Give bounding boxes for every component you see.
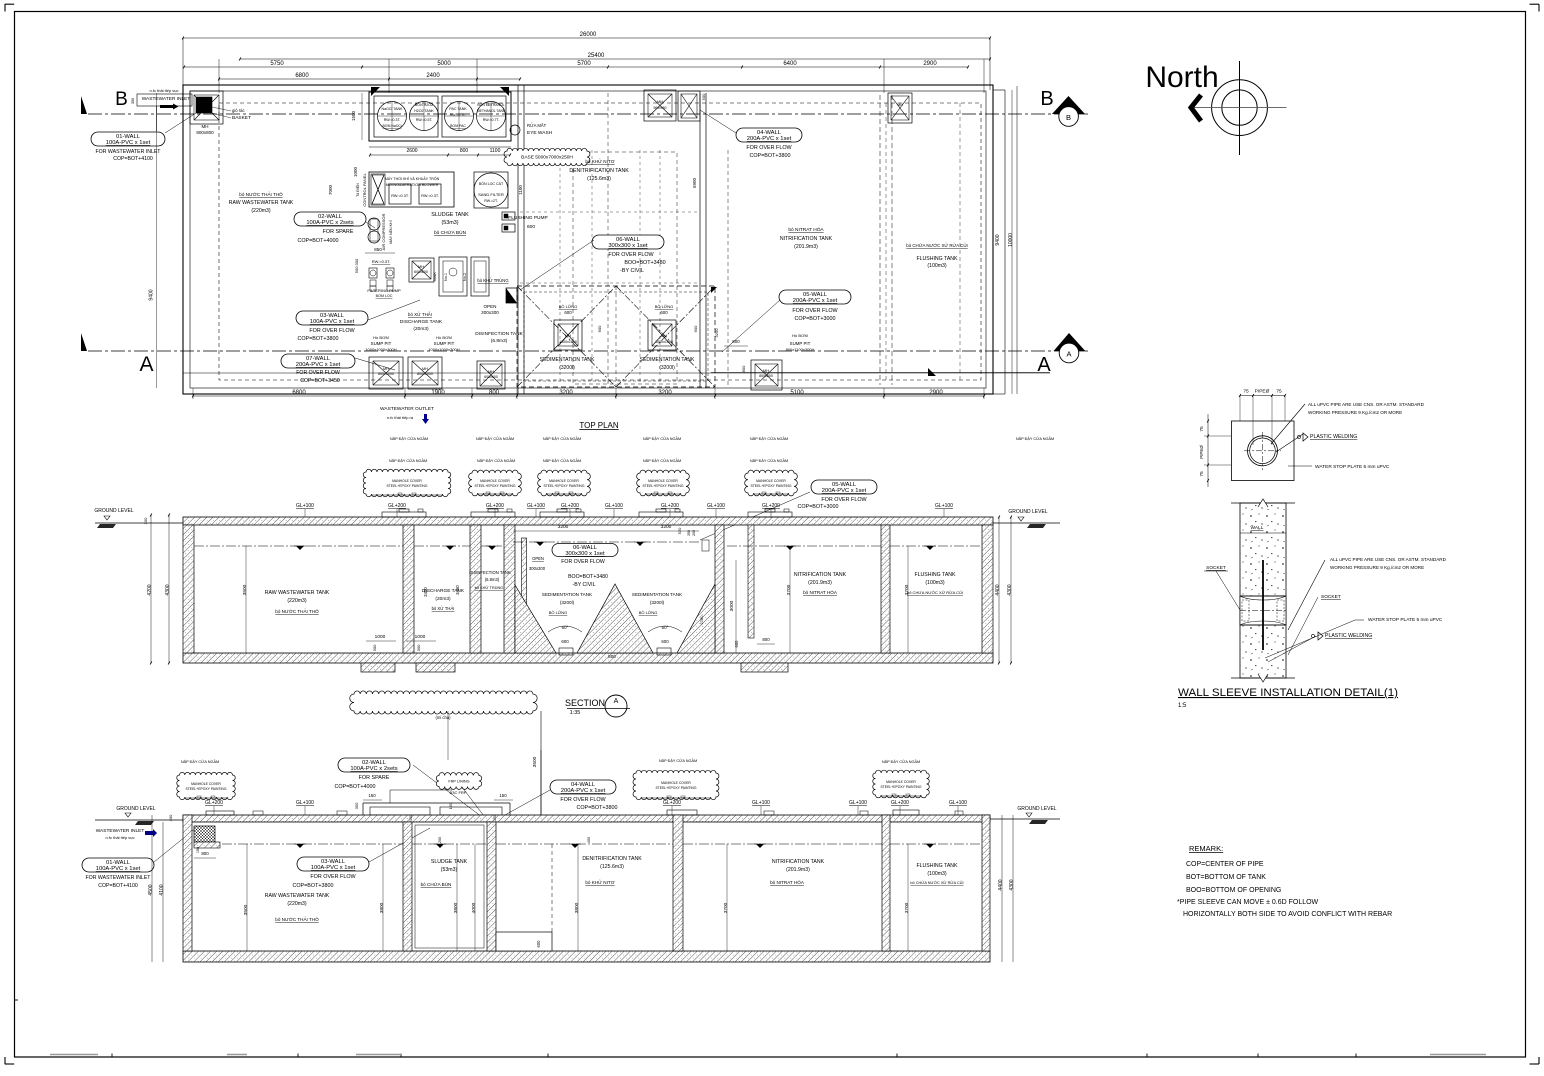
svg-text:(100m3): (100m3) <box>927 263 947 269</box>
svg-text:10000: 10000 <box>1008 233 1014 247</box>
svg-text:600: 600 <box>536 940 541 948</box>
svg-text:OPEN: OPEN <box>483 304 496 309</box>
svg-text:ALL uPVC PIPE ARE USE CNS. OR: ALL uPVC PIPE ARE USE CNS. OR ASTM. STAN… <box>1330 557 1447 562</box>
svg-text:NẮP ĐẬY CỬA NGẦM: NẮP ĐẬY CỬA NGẦM <box>389 458 427 463</box>
svg-text:RW.=0.7T.: RW.=0.7T. <box>483 118 500 122</box>
svg-text:600: 600 <box>561 639 569 644</box>
svg-text:(3200l): (3200l) <box>659 365 675 371</box>
svg-text:05-WALL: 05-WALL <box>803 292 828 298</box>
svg-text:75: 75 <box>1199 471 1205 477</box>
svg-text:SUMP PIT: SUMP PIT <box>434 341 455 346</box>
svg-text:5700: 5700 <box>577 61 591 67</box>
svg-text:MH: MH <box>565 334 571 338</box>
svg-text:MH: MH <box>422 367 428 371</box>
svg-text:MH: MH <box>897 103 903 107</box>
svg-text:150: 150 <box>368 793 376 798</box>
svg-text:3500: 3500 <box>532 756 538 767</box>
svg-text:(3200l): (3200l) <box>560 600 575 605</box>
svg-text:3700: 3700 <box>904 902 910 913</box>
svg-text:FOR SPARE: FOR SPARE <box>323 229 354 235</box>
svg-text:MH: MH <box>488 370 494 374</box>
svg-text:800: 800 <box>732 339 740 344</box>
svg-text:PLASTIC WELDING: PLASTIC WELDING <box>1310 434 1357 440</box>
svg-text:FOR SPARE: FOR SPARE <box>359 775 390 781</box>
svg-text:150: 150 <box>448 802 453 809</box>
svg-text:600: 600 <box>597 325 602 332</box>
svg-text:BƠM PAC: BƠM PAC <box>450 124 466 128</box>
svg-text:GL+100: GL+100 <box>605 503 623 509</box>
svg-text:bỏ NITRAT HÓA: bỏ NITRAT HÓA <box>803 589 838 595</box>
svg-text:NẮP ĐẬY CỬA NGẦM: NẮP ĐẬY CỬA NGẦM <box>643 458 681 463</box>
svg-text:bỏ NƯỚC THẢI THÔ: bỏ NƯỚC THẢI THÔ <box>239 191 283 197</box>
svg-text:3200: 3200 <box>658 390 672 396</box>
svg-text:NẮP ĐẬY CỬA NGẦM: NẮP ĐẬY CỬA NGẦM <box>1016 436 1054 441</box>
svg-text:(3200l): (3200l) <box>650 600 665 605</box>
svg-text:06-WALL: 06-WALL <box>573 545 598 551</box>
svg-text:BỒ LỮNG: BỒ LỮNG <box>559 304 578 309</box>
svg-text:1000x1000: 1000x1000 <box>655 340 673 344</box>
svg-text:(100m3): (100m3) <box>925 580 945 586</box>
svg-text:FOR OVER FLOW: FOR OVER FLOW <box>560 797 606 803</box>
svg-text:SEDIMENTATION TANK: SEDIMENTATION TANK <box>542 592 593 597</box>
svg-text:(125.6m3): (125.6m3) <box>587 176 611 182</box>
svg-text:bỏ CHỨA NƯỚC XỬ RỬA CỦI: bỏ CHỨA NƯỚC XỬ RỬA CỦI <box>906 243 967 248</box>
svg-text:04-WALL: 04-WALL <box>571 782 596 788</box>
svg-text:BASKET: BASKET <box>232 115 251 121</box>
svg-text:3200: 3200 <box>661 524 672 530</box>
svg-text:3800: 3800 <box>453 902 459 913</box>
svg-text:GL+200: GL+200 <box>663 800 681 806</box>
svg-text:DENITRIFICATION TANK: DENITRIFICATION TANK <box>569 168 629 174</box>
svg-text:n.fc thải tiếp ra: n.fc thải tiếp ra <box>387 415 414 420</box>
svg-text:05-WALL: 05-WALL <box>832 482 857 488</box>
svg-text:COP=BOT+3450: COP=BOT+3450 <box>300 378 340 384</box>
svg-text:RAW WASTEWATER TANK: RAW WASTEWATER TANK <box>229 200 294 206</box>
svg-text:NẮP ĐẬY CỬA NGẦM: NẮP ĐẬY CỬA NGẦM <box>543 436 581 441</box>
svg-text:No.2: No.2 <box>463 273 467 281</box>
svg-text:STEEL+EPOXY PAINTING: STEEL+EPOXY PAINTING <box>185 787 226 791</box>
svg-text:NẮP ĐẬY CỬA NGẦM: NẮP ĐẬY CỬA NGẦM <box>181 759 219 764</box>
svg-text:NaOCl TANK: NaOCl TANK <box>381 107 403 111</box>
svg-text:FLUSHING TANK: FLUSHING TANK <box>916 863 958 869</box>
svg-text:3800: 3800 <box>574 902 580 913</box>
svg-text:DENITRIFICATION TANK: DENITRIFICATION TANK <box>582 856 642 862</box>
svg-text:3200: 3200 <box>559 390 573 396</box>
svg-text:WALL SLEEVE INSTALLATION DETAI: WALL SLEEVE INSTALLATION DETAIL(1) <box>1178 687 1398 699</box>
svg-text:SECTION: SECTION <box>565 698 605 708</box>
svg-text:2600: 2600 <box>406 148 417 154</box>
svg-text:3700: 3700 <box>723 902 729 913</box>
svg-text:GL+200: GL+200 <box>388 503 406 509</box>
svg-text:MH: MH <box>657 100 663 104</box>
svg-text:bỏ KHỬ TRÙNG: bỏ KHỬ TRÙNG <box>477 278 508 283</box>
svg-text:300x300: 300x300 <box>481 310 499 315</box>
svg-text:3500: 3500 <box>242 584 248 595</box>
svg-text:(3200l): (3200l) <box>559 365 575 371</box>
svg-text:4300: 4300 <box>1007 584 1013 595</box>
svg-text:GL+100: GL+100 <box>296 503 314 509</box>
svg-text:3000: 3000 <box>729 600 735 611</box>
svg-text:giỏ rác: giỏ rác <box>232 108 245 113</box>
svg-text:1000: 1000 <box>375 634 386 640</box>
svg-text:100A-PVC x 2sets: 100A-PVC x 2sets <box>306 220 353 226</box>
svg-text:600: 600 <box>527 224 535 230</box>
svg-text:4200: 4200 <box>147 584 153 595</box>
svg-text:3500: 3500 <box>243 904 249 915</box>
svg-text:MANHOLE COVER: MANHOLE COVER <box>756 479 786 483</box>
svg-text:4400: 4400 <box>998 879 1004 890</box>
svg-text:BOT=BOTTOM OF TANK: BOT=BOTTOM OF TANK <box>1186 874 1266 881</box>
svg-text:RAW WASTEWATER TANK: RAW WASTEWATER TANK <box>265 893 330 899</box>
svg-text:(201.9m3): (201.9m3) <box>808 580 832 586</box>
svg-text:MANHOLE COVER: MANHOLE COVER <box>549 479 579 483</box>
svg-text:STEEL+EPOXY PAINTING: STEEL+EPOXY PAINTING <box>880 785 921 789</box>
svg-text:B: B <box>1066 113 1071 122</box>
svg-text:MH: MH <box>763 369 769 373</box>
svg-text:NẮP ĐẬY CỬA NGẦM: NẮP ĐẬY CỬA NGẦM <box>750 458 788 463</box>
svg-text:800: 800 <box>741 365 746 372</box>
svg-text:FOR OVER FLOW: FOR OVER FLOW <box>309 328 355 334</box>
svg-text:GROUND LEVEL: GROUND LEVEL <box>1008 509 1047 515</box>
svg-text:NẮP ĐẬY CỬA NGẦM: NẮP ĐẬY CỬA NGẦM <box>390 436 428 441</box>
svg-text:GL+100: GL+100 <box>707 503 725 509</box>
svg-text:WASTEWATER OUTLET: WASTEWATER OUTLET <box>380 406 434 412</box>
svg-text:ALL uPVC PIPE ARE USE CNS. OR: ALL uPVC PIPE ARE USE CNS. OR ASTM. STAN… <box>1308 402 1425 407</box>
svg-text:600: 600 <box>564 310 572 315</box>
svg-text:(6.8m3): (6.8m3) <box>485 577 500 582</box>
svg-text:75: 75 <box>1276 389 1282 395</box>
svg-text:9400: 9400 <box>995 234 1001 245</box>
svg-text:800: 800 <box>460 148 469 154</box>
svg-text:BOO=BOT+3480: BOO=BOT+3480 <box>568 574 608 580</box>
svg-text:300x300 x 1set: 300x300 x 1set <box>608 243 648 249</box>
svg-text:150: 150 <box>499 793 507 798</box>
svg-text:3800: 3800 <box>379 902 385 913</box>
svg-text:SLUDGE TANK: SLUDGE TANK <box>431 212 469 218</box>
svg-text:bỏ NITRAT HÓA: bỏ NITRAT HÓA <box>788 226 824 233</box>
svg-text:800x1100x300H: 800x1100x300H <box>786 347 815 352</box>
svg-text:150: 150 <box>409 815 413 821</box>
svg-text:WASTEWATER INLET: WASTEWATER INLET <box>96 828 145 834</box>
svg-text:200A-PVC x 1set: 200A-PVC x 1set <box>296 362 341 368</box>
svg-text:3400: 3400 <box>423 587 428 597</box>
svg-text:bỏ NƯỚC THẢI THÔ: bỏ NƯỚC THẢI THÔ <box>275 608 319 614</box>
svg-text:PLASTIC WELDING: PLASTIC WELDING <box>1325 633 1372 639</box>
svg-text:600: 600 <box>734 640 739 648</box>
svg-text:HORIZONTALLY BOTH SIDE TO AVOI: HORIZONTALLY BOTH SIDE TO AVOID CONFLICT… <box>1183 911 1392 918</box>
svg-text:800x1000: 800x1000 <box>378 372 394 376</box>
svg-text:NẮP ĐẬY CỬA NGẦM: NẮP ĐẬY CỬA NGẦM <box>543 458 581 463</box>
svg-text:3450: 3450 <box>455 585 460 595</box>
svg-text:*PIPE SLEEVE CAN MOVE ± 0.6D F: *PIPE SLEEVE CAN MOVE ± 0.6D FOLLOW <box>1177 899 1319 906</box>
svg-text:200A-PVC x 1set: 200A-PVC x 1set <box>793 298 838 304</box>
svg-text:bỏ KHỬ NITƠ: bỏ KHỬ NITƠ <box>585 158 614 164</box>
svg-text:520: 520 <box>677 527 682 534</box>
svg-text:9400: 9400 <box>149 289 155 300</box>
svg-text:EYE WASH: EYE WASH <box>527 130 553 136</box>
svg-text:DISCHARGE TANK: DISCHARGE TANK <box>400 319 443 325</box>
svg-text:NITRIFICATION TANK: NITRIFICATION TANK <box>794 572 847 578</box>
svg-text:GL+200: GL+200 <box>661 503 679 509</box>
svg-text:FOR OVER FLOW: FOR OVER FLOW <box>821 497 867 503</box>
svg-text:COP=BOT+3000: COP=BOT+3000 <box>794 316 835 322</box>
svg-text:MÁY NÉN KHÍ: MÁY NÉN KHÍ <box>388 220 393 243</box>
svg-text:MANHOLE COVER: MANHOLE COVER <box>661 781 691 785</box>
svg-text:AIR COMPRESSOR: AIR COMPRESSOR <box>381 214 386 251</box>
svg-text:CONTROL PANEL: CONTROL PANEL <box>362 173 367 207</box>
svg-text:FLUSHING TANK: FLUSHING TANK <box>914 572 956 578</box>
svg-text:GL+100: GL+100 <box>949 800 967 806</box>
svg-text:800: 800 <box>608 654 616 659</box>
svg-text:5000: 5000 <box>437 61 451 67</box>
svg-text:MANHOLE COVER: MANHOLE COVER <box>886 780 916 784</box>
svg-text:600x600: 600x600 <box>414 270 428 274</box>
svg-text:400: 400 <box>587 837 591 843</box>
svg-text:COP=BOT+4000: COP=BOT+4000 <box>297 238 338 244</box>
svg-text:FILTERING PUMP: FILTERING PUMP <box>367 288 401 293</box>
svg-text:(201.9m3): (201.9m3) <box>794 244 818 250</box>
svg-text:RW.=0.3T.: RW.=0.3T. <box>391 194 409 198</box>
svg-text:GL+200: GL+200 <box>762 503 780 509</box>
svg-text:SOCKET: SOCKET <box>1321 594 1341 600</box>
svg-text:NITRIFICATION TANK: NITRIFICATION TANK <box>780 236 833 242</box>
svg-text:STEEL+EPOXY PAINTING: STEEL+EPOXY PAINTING <box>642 484 683 488</box>
svg-text:No.1: No.1 <box>444 273 448 281</box>
svg-text:1000: 1000 <box>353 166 358 177</box>
svg-text:FOR WASTEWATER INLET: FOR WASTEWATER INLET <box>86 875 152 881</box>
svg-text:960x960: 960x960 <box>653 106 666 110</box>
svg-text:(220m3): (220m3) <box>287 901 307 907</box>
svg-text:800: 800 <box>489 390 500 396</box>
svg-text:1100: 1100 <box>518 185 523 195</box>
svg-text:1000x1000x300H: 1000x1000x300H <box>428 347 459 352</box>
svg-text:GROUND LEVEL: GROUND LEVEL <box>1017 806 1056 812</box>
svg-text:GL+100: GL+100 <box>935 503 953 509</box>
svg-text:(220m3): (220m3) <box>251 208 271 214</box>
svg-text:BỒN METHANOL: BỒN METHANOL <box>477 102 504 107</box>
svg-text:(53m3): (53m3) <box>441 220 458 226</box>
svg-text:1100: 1100 <box>490 148 501 154</box>
svg-text:02-WALL: 02-WALL <box>318 214 343 220</box>
svg-text:3200: 3200 <box>714 328 719 338</box>
svg-text:200: 200 <box>692 530 696 536</box>
svg-text:03-WALL: 03-WALL <box>321 859 346 865</box>
svg-text:RỬA MẮT: RỬA MẮT <box>527 123 547 128</box>
svg-text:-BY CIVIL: -BY CIVIL <box>573 582 596 588</box>
svg-text:75: 75 <box>1199 426 1205 432</box>
svg-text:4300: 4300 <box>1009 879 1015 890</box>
svg-text:COP=BOT+3800: COP=BOT+3800 <box>292 883 333 889</box>
svg-text:3200: 3200 <box>558 524 569 530</box>
svg-text:5100: 5100 <box>790 390 804 396</box>
svg-text:GL+100: GL+100 <box>527 503 545 509</box>
svg-text:300: 300 <box>372 644 377 651</box>
svg-text:NẮP ĐẬY CỬA NGẦM: NẮP ĐẬY CỬA NGẦM <box>476 436 514 441</box>
svg-text:1000x1000: 1000x1000 <box>559 340 577 344</box>
svg-text:GL+200: GL+200 <box>561 503 579 509</box>
svg-text:800: 800 <box>201 851 209 856</box>
svg-text:07-WALL: 07-WALL <box>306 356 331 362</box>
svg-text:bỏ NƯỚC THẢI THÔ: bỏ NƯỚC THẢI THÔ <box>275 916 319 922</box>
svg-text:4500: 4500 <box>148 884 154 895</box>
svg-text:500: 500 <box>701 93 706 100</box>
svg-text:B: B <box>115 89 128 110</box>
svg-text:COP=BOT+4000: COP=BOT+4000 <box>334 784 375 790</box>
svg-text:MANHOLE COVER: MANHOLE COVER <box>392 479 422 483</box>
svg-text:3700: 3700 <box>786 584 792 595</box>
svg-text:GL+100: GL+100 <box>752 800 770 806</box>
svg-text:100A-PVC x 2sets: 100A-PVC x 2sets <box>350 766 397 772</box>
svg-text:bỏ NITRAT HÓA: bỏ NITRAT HÓA <box>770 879 805 885</box>
svg-text:3700: 3700 <box>904 584 910 595</box>
svg-text:04-WALL: 04-WALL <box>757 130 782 136</box>
svg-text:NẮP ĐẬY CỬA NGẦM: NẮP ĐẬY CỬA NGẦM <box>750 436 788 441</box>
svg-text:NITRIFICATION TANK: NITRIFICATION TANK <box>772 859 825 865</box>
svg-text:OPEN: OPEN <box>532 556 544 561</box>
svg-text:06-WALL: 06-WALL <box>616 237 641 243</box>
svg-text:SUMP PIT: SUMP PIT <box>371 341 392 346</box>
svg-text:6800: 6800 <box>292 390 306 396</box>
svg-text:PIPEØ: PIPEØ <box>1199 445 1204 459</box>
svg-text:350: 350 <box>687 530 691 536</box>
svg-text:MH: MH <box>202 124 209 129</box>
svg-text:200A-PVC x 1set: 200A-PVC x 1set <box>561 788 606 794</box>
svg-text:(125.6m3): (125.6m3) <box>600 864 624 870</box>
svg-text:100A-PVC x 1set: 100A-PVC x 1set <box>106 140 151 146</box>
svg-text:COP=BOT+3000: COP=BOT+3000 <box>797 504 838 510</box>
svg-text:4300: 4300 <box>165 584 171 595</box>
svg-text:RW.=0.7L.: RW.=0.7L. <box>450 113 467 117</box>
svg-text:A: A <box>1066 350 1071 359</box>
svg-text:100A-PVC x 1set: 100A-PVC x 1set <box>96 866 141 872</box>
svg-text:800x800: 800x800 <box>759 374 773 378</box>
svg-text:(220m3): (220m3) <box>287 598 307 604</box>
svg-text:bỏ CHỨA BÙN: bỏ CHỨA BÙN <box>421 881 452 887</box>
svg-text:Hồ BƠM: Hồ BƠM <box>792 333 808 338</box>
svg-text:GL+200: GL+200 <box>205 800 223 806</box>
svg-text:WATER STOP PLATE 5 mm uPVC: WATER STOP PLATE 5 mm uPVC <box>1368 617 1443 623</box>
svg-text:RW.=2T.: RW.=2T. <box>484 199 498 203</box>
svg-text:BƠM NaOCl: BƠM NaOCl <box>382 124 401 128</box>
svg-text:03-WALL: 03-WALL <box>320 313 345 319</box>
svg-text:100A-PVC x 1set: 100A-PVC x 1set <box>310 319 355 325</box>
svg-text:STEEL+EPOXY PAINTING: STEEL+EPOXY PAINTING <box>750 484 791 488</box>
svg-text:SEDIMENTATION TANK: SEDIMENTATION TANK <box>540 357 595 363</box>
svg-text:FOR OVER FLOW: FOR OVER FLOW <box>608 252 654 258</box>
svg-text:RW.=0.3T.: RW.=0.3T. <box>372 259 391 264</box>
svg-text:4000: 4000 <box>471 902 477 913</box>
svg-text:1000x1000x300H: 1000x1000x300H <box>365 347 396 352</box>
svg-text:300x300: 300x300 <box>529 566 546 571</box>
svg-text:MÁY THỔI KHÍ VÀ KHUẤY TRỘN: MÁY THỔI KHÍ VÀ KHUẤY TRỘN <box>385 176 440 181</box>
svg-text:FOR OVER FLOW: FOR OVER FLOW <box>310 874 356 880</box>
svg-text:B3C FRP: B3C FRP <box>450 790 467 795</box>
svg-text:A: A <box>139 353 153 376</box>
svg-text:4100: 4100 <box>159 884 165 895</box>
svg-text:bỏ KHỬ TRÙNG: bỏ KHỬ TRÙNG <box>475 585 503 590</box>
svg-text:7000: 7000 <box>328 184 333 195</box>
svg-text:800x800: 800x800 <box>196 130 214 135</box>
svg-text:GL+100: GL+100 <box>296 800 314 806</box>
svg-text:(20m3): (20m3) <box>435 596 451 602</box>
svg-text:2900: 2900 <box>923 61 937 67</box>
svg-text:600: 600 <box>661 639 669 644</box>
svg-text:REMARK:: REMARK: <box>1189 844 1223 853</box>
svg-text:bỏ KHỬ NITƠ: bỏ KHỬ NITƠ <box>585 879 614 885</box>
svg-text:COP=BOT+3800: COP=BOT+3800 <box>297 336 338 342</box>
svg-text:200A-PVC x 1set: 200A-PVC x 1set <box>747 136 792 142</box>
svg-text:2900: 2900 <box>929 390 943 396</box>
svg-text:COP=BOT+4100: COP=BOT+4100 <box>113 156 153 162</box>
svg-text:(20m3): (20m3) <box>413 326 429 332</box>
svg-text:200: 200 <box>143 517 148 524</box>
svg-text:Hồ BƠM: Hồ BƠM <box>436 335 452 340</box>
svg-text:RW.=0.3T.: RW.=0.3T. <box>384 118 401 122</box>
svg-text:300x300 x 1set: 300x300 x 1set <box>565 551 605 557</box>
svg-text:FLUSHING TANK: FLUSHING TANK <box>916 256 958 262</box>
svg-text:SAND FILTER: SAND FILTER <box>478 192 504 197</box>
svg-text:n.fc thải tiếp vục: n.fc thải tiếp vục <box>106 835 135 840</box>
svg-text:(53m3): (53m3) <box>441 867 458 873</box>
svg-text:n.fc thải tiếp vục: n.fc thải tiếp vục <box>150 88 179 93</box>
svg-text:bỏ XỬ THẢI: bỏ XỬ THẢI <box>432 606 455 611</box>
svg-text:WASTEWATER INLET: WASTEWATER INLET <box>142 96 191 102</box>
svg-text:NẮP ĐẬY CỬA NGẦM: NẮP ĐẬY CỬA NGẦM <box>643 436 681 441</box>
svg-text:GROUND LEVEL: GROUND LEVEL <box>94 508 133 514</box>
svg-text:MH: MH <box>418 265 424 269</box>
svg-text:600: 600 <box>693 325 698 332</box>
svg-text:RW.=0.5T.: RW.=0.5T. <box>416 118 433 122</box>
svg-text:SEDIMENTATION TANK: SEDIMENTATION TANK <box>640 357 695 363</box>
svg-text:1000: 1000 <box>415 634 426 640</box>
svg-text:FOR OVER FLOW: FOR OVER FLOW <box>746 145 792 151</box>
svg-text:FOR OVER FLOW: FOR OVER FLOW <box>792 308 838 314</box>
svg-text:A: A <box>614 698 619 705</box>
svg-text:bỏ CHỨA BÙN: bỏ CHỨA BÙN <box>434 229 467 236</box>
svg-text:4400: 4400 <box>995 584 1001 595</box>
svg-text:FOR WASTEWATER INLET: FOR WASTEWATER INLET <box>96 149 162 155</box>
svg-text:bỏ CHỨA NƯỚC XỬ RỬA CỦI: bỏ CHỨA NƯỚC XỬ RỬA CỦI <box>910 880 963 885</box>
svg-text:NẮP ĐẬY CỬA NGẦM: NẮP ĐẬY CỬA NGẦM <box>882 759 920 764</box>
svg-text:WATER STOP PLATE 5 mm uPVC: WATER STOP PLATE 5 mm uPVC <box>1315 464 1390 470</box>
svg-text:(100m3): (100m3) <box>927 871 947 877</box>
svg-text:GL+200: GL+200 <box>891 800 909 806</box>
svg-text:DISINFECTION TANK: DISINFECTION TANK <box>469 570 511 575</box>
svg-text:150: 150 <box>196 847 200 853</box>
svg-text:Hồ BƠM: Hồ BƠM <box>373 335 389 340</box>
svg-text:25400: 25400 <box>588 53 605 59</box>
svg-text:350: 350 <box>354 802 359 809</box>
svg-text:COP=CENTER OF PIPE: COP=CENTER OF PIPE <box>1186 861 1264 868</box>
svg-text:WORKING PRESSURE 9 Kg./cm2 OR: WORKING PRESSURE 9 Kg./cm2 OR MORE <box>1308 410 1402 415</box>
svg-text:2780: 2780 <box>699 615 704 625</box>
svg-text:SUMP PIT: SUMP PIT <box>790 341 811 346</box>
svg-text:WORKING PRESSURE 9 Kg./cm2 OR: WORKING PRESSURE 9 Kg./cm2 OR MORE <box>1330 565 1424 570</box>
svg-text:MANHOLE COVER: MANHOLE COVER <box>191 782 221 786</box>
svg-text:1:35: 1:35 <box>570 710 581 716</box>
svg-text:bỏ XỬ THẢI: bỏ XỬ THẢI <box>408 312 432 317</box>
svg-text:GL+100: GL+100 <box>849 800 867 806</box>
svg-text:SLUDGE TANK: SLUDGE TANK <box>431 859 468 865</box>
svg-text:MIXING&AERATION BLOWER: MIXING&AERATION BLOWER <box>386 183 439 187</box>
svg-text:BỒ LỮNG: BỒ LỮNG <box>549 610 568 615</box>
svg-text:STEEL+EPOXY PAINTING: STEEL+EPOXY PAINTING <box>474 484 515 488</box>
svg-text:01-WALL: 01-WALL <box>106 860 131 866</box>
svg-text:BOO=BOT+3480: BOO=BOT+3480 <box>624 260 665 266</box>
svg-text:200: 200 <box>438 837 442 843</box>
svg-text:600x600: 600x600 <box>484 375 498 379</box>
svg-text:MH: MH <box>383 367 389 371</box>
